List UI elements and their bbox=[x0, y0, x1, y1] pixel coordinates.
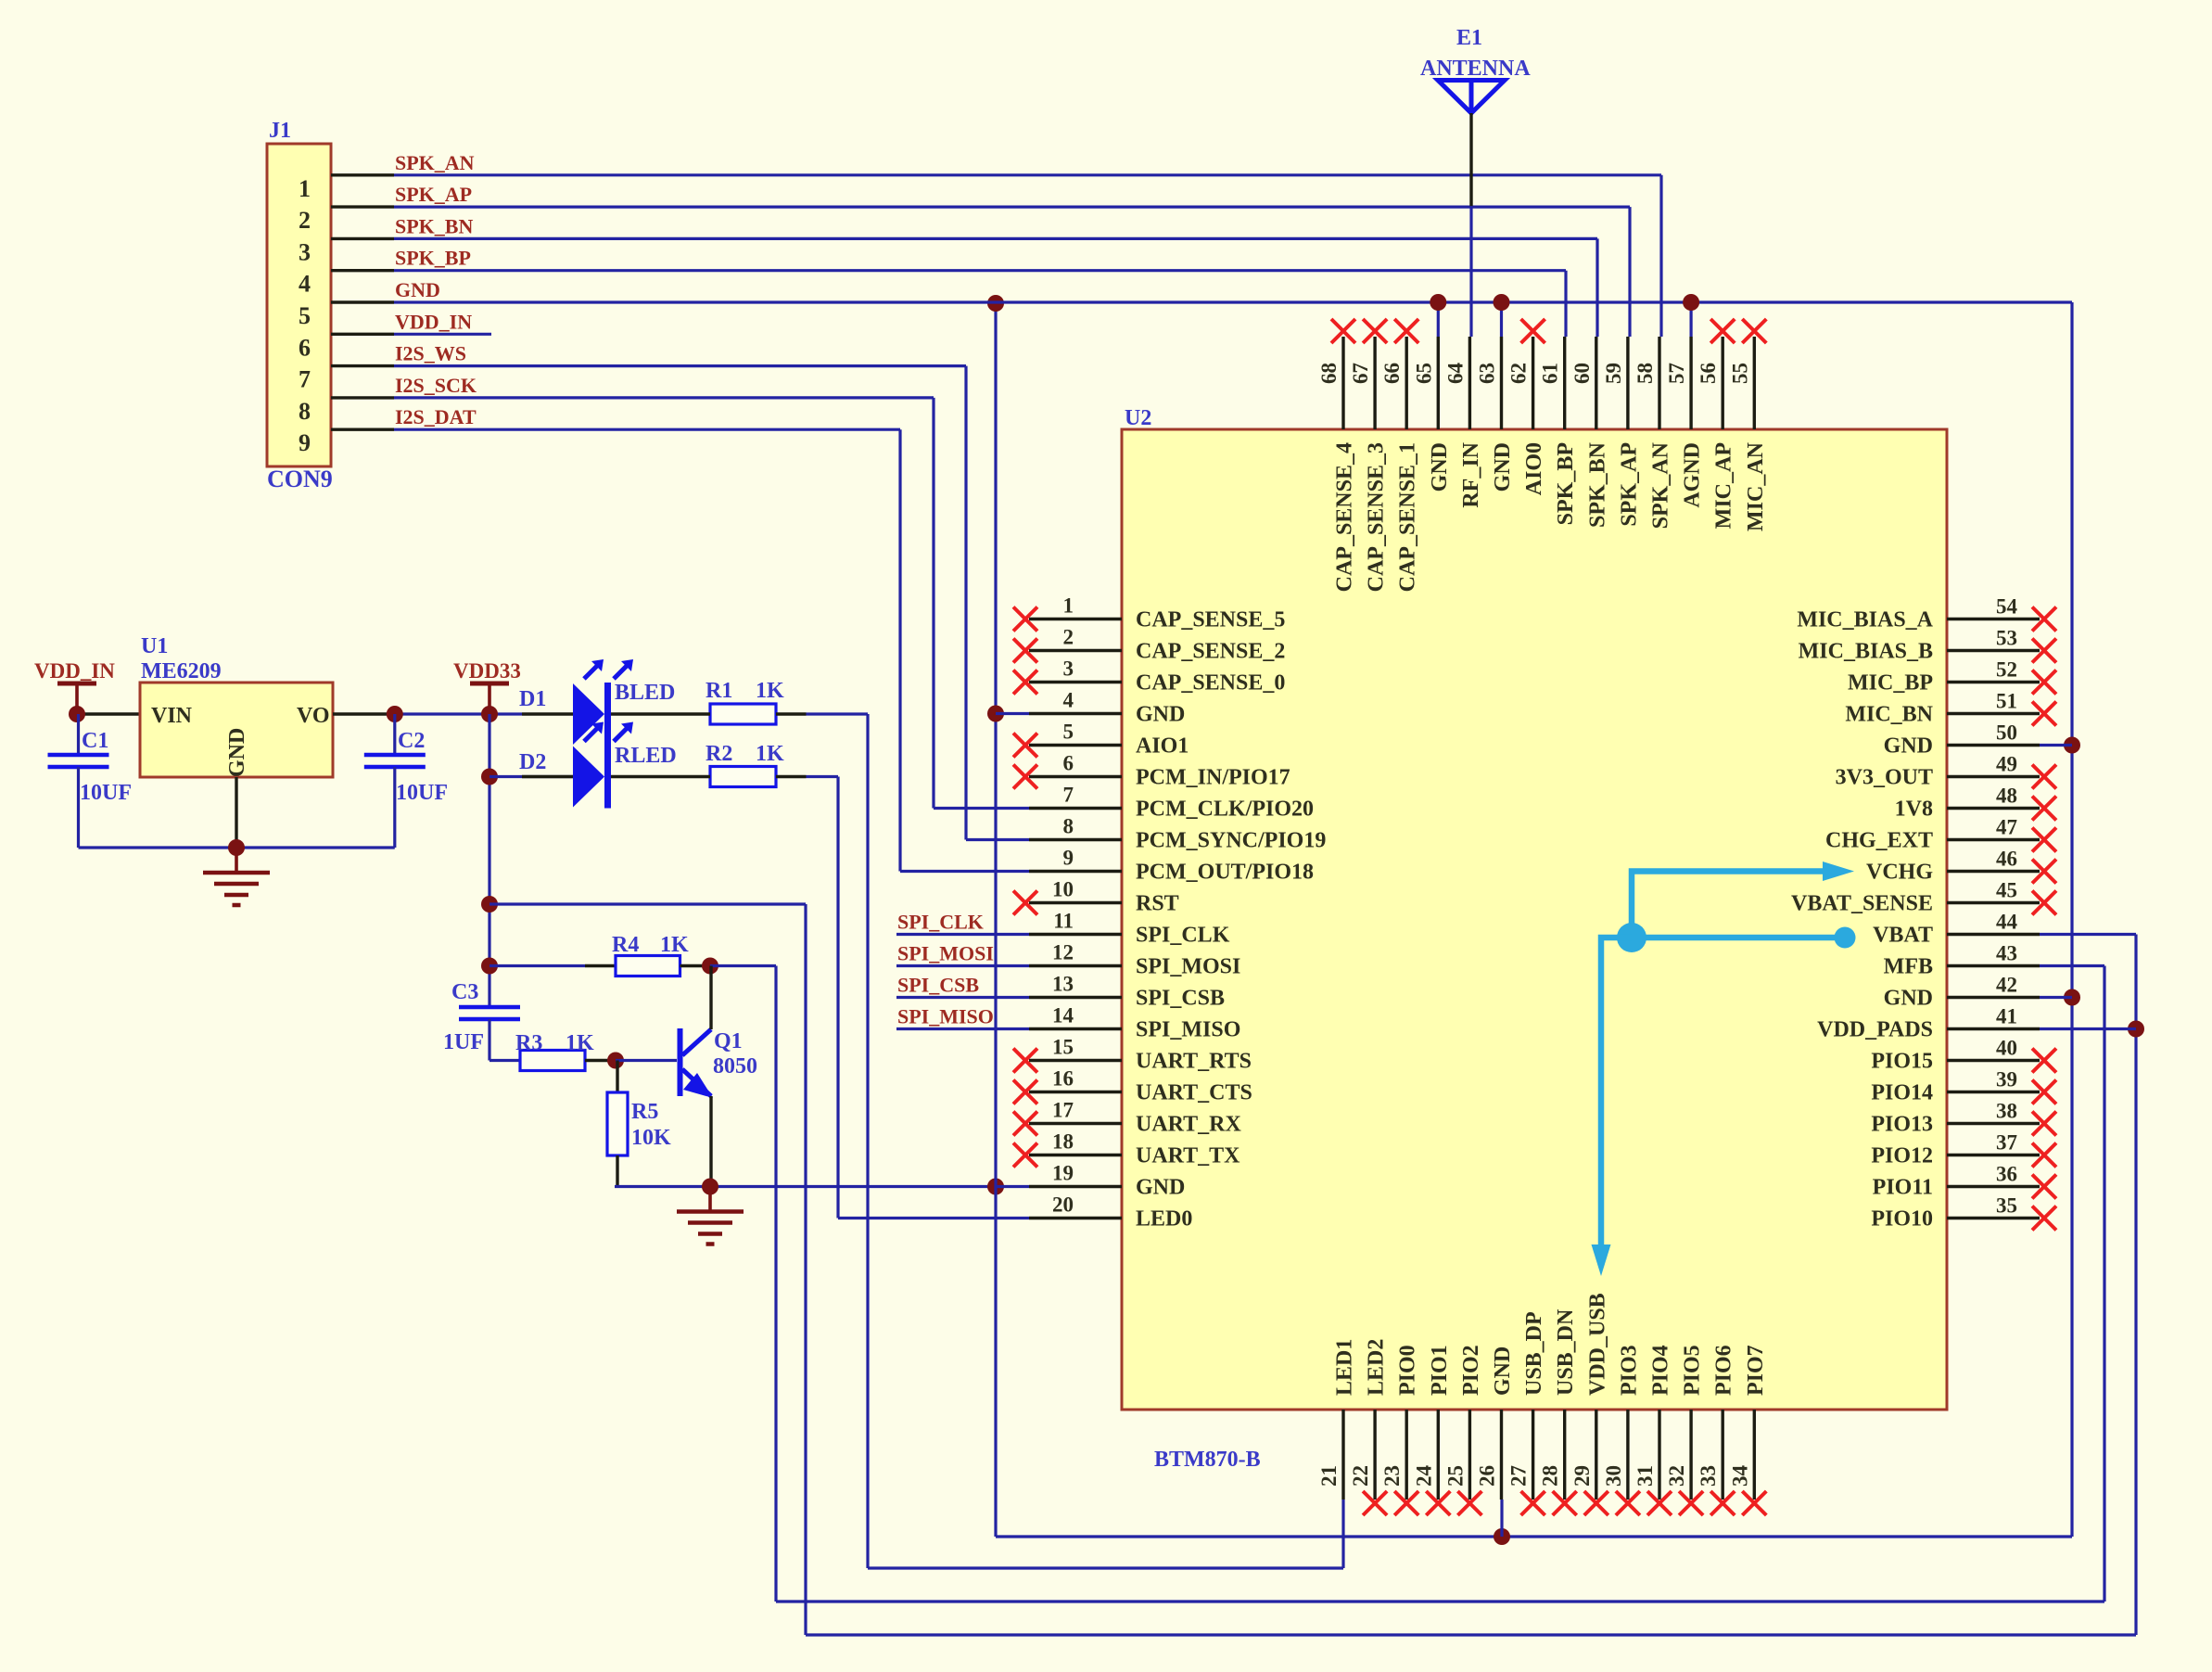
svg-text:54: 54 bbox=[1996, 595, 2018, 619]
wire VDD33 to R4 bbox=[489, 964, 585, 967]
svg-text:BTM870-B: BTM870-B bbox=[1154, 1448, 1261, 1472]
U2 pin 9 (PCM_OUT/PIO18) stub, number and name bbox=[1029, 870, 1122, 873]
U2 pin 23 (PIO0) stub, number and name bbox=[1405, 1410, 1407, 1500]
svg-text:62: 62 bbox=[1507, 363, 1531, 384]
svg-text:1K: 1K bbox=[660, 933, 689, 957]
svg-text:31: 31 bbox=[1634, 1465, 1657, 1487]
U2 pin 58 (SPK_AN) stub, number and name bbox=[1658, 337, 1660, 429]
annotation arrow to VDD_USB bbox=[1601, 938, 1632, 1248]
U2 pin 4 (GND) stub, number and name bbox=[1029, 712, 1122, 715]
transistor Q1 8050 bbox=[678, 1028, 683, 1096]
svg-text:AIO0: AIO0 bbox=[1522, 442, 1546, 495]
svg-text:47: 47 bbox=[1996, 816, 2017, 839]
svg-text:USB_DP: USB_DP bbox=[1522, 1311, 1546, 1396]
svg-text:10: 10 bbox=[1052, 878, 1074, 901]
U2 pin 15 (UART_RTS) stub, number and name bbox=[1029, 1059, 1122, 1062]
wire I2S_WS bbox=[394, 364, 966, 367]
svg-text:PIO7: PIO7 bbox=[1744, 1345, 1768, 1396]
antenna pin wire bbox=[1469, 113, 1472, 207]
U2 pin 12 (SPI_MOSI) stub, number and name bbox=[1029, 964, 1122, 967]
svg-text:MIC_BIAS_B: MIC_BIAS_B bbox=[1799, 640, 1933, 664]
U2 pin 41 (VDD_PADS) stub, number and name bbox=[1947, 1027, 2040, 1030]
svg-text:PIO4: PIO4 bbox=[1649, 1345, 1673, 1396]
node GND bus tap junction bbox=[987, 295, 1004, 312]
wire GND bottom rail bbox=[996, 1535, 2072, 1538]
svg-text:MIC_AN: MIC_AN bbox=[1744, 441, 1768, 531]
svg-text:PCM_IN/PIO17: PCM_IN/PIO17 bbox=[1136, 766, 1290, 790]
Q1 emitter wire bbox=[709, 1096, 712, 1187]
svg-text:BLED: BLED bbox=[615, 681, 675, 705]
svg-text:7: 7 bbox=[299, 366, 311, 393]
svg-text:CAP_SENSE_0: CAP_SENSE_0 bbox=[1136, 671, 1285, 696]
svg-text:PIO5: PIO5 bbox=[1681, 1345, 1705, 1396]
svg-text:23: 23 bbox=[1380, 1465, 1404, 1487]
svg-text:LED0: LED0 bbox=[1136, 1207, 1192, 1232]
U2 pin 56 (MIC_AP) stub, number and name bbox=[1721, 337, 1723, 429]
svg-text:6: 6 bbox=[1063, 752, 1074, 775]
wire SPK_AN bbox=[394, 173, 1661, 176]
svg-text:VDD_USB: VDD_USB bbox=[1585, 1293, 1609, 1396]
node pin19 GND junction bbox=[987, 1179, 1004, 1195]
wire RLED net horizontal to pin20 stub bbox=[838, 1217, 1029, 1219]
node VDD33 to D2 junction bbox=[481, 769, 498, 785]
svg-text:10UF: 10UF bbox=[396, 781, 448, 805]
wire R1 to BLED column bbox=[807, 712, 869, 715]
U2 pin 1 (CAP_SENSE_5) stub, number and name bbox=[1029, 618, 1122, 620]
U2 pin 55 (MIC_AN) stub, number and name bbox=[1753, 337, 1756, 429]
node chip pin4 GND junction bbox=[987, 706, 1004, 722]
U2 pin 10 (RST) stub, number and name bbox=[1029, 901, 1122, 904]
U2 pin 45 (VBAT_SENSE) stub, number and name bbox=[1947, 901, 2040, 904]
svg-text:60: 60 bbox=[1570, 363, 1594, 384]
wire pin42 to GND bbox=[2040, 996, 2072, 999]
svg-text:RF_IN: RF_IN bbox=[1459, 441, 1483, 507]
svg-text:CAP_SENSE_3: CAP_SENSE_3 bbox=[1365, 442, 1389, 592]
wire I2S_SCK bbox=[394, 396, 934, 399]
svg-text:USB_DN: USB_DN bbox=[1554, 1308, 1578, 1396]
svg-text:57: 57 bbox=[1665, 363, 1688, 384]
svg-text:3: 3 bbox=[299, 238, 311, 265]
svg-text:34: 34 bbox=[1728, 1465, 1751, 1487]
svg-text:AIO1: AIO1 bbox=[1136, 734, 1189, 759]
svg-text:25: 25 bbox=[1443, 1465, 1467, 1487]
J1 pin 7 stub and number bbox=[331, 364, 394, 367]
svg-text:CAP_SENSE_1: CAP_SENSE_1 bbox=[1396, 442, 1420, 592]
net label SPI_MOSI bbox=[896, 964, 1029, 967]
U2 pin 11 (SPI_CLK) stub, number and name bbox=[1029, 933, 1122, 936]
U2 pin 2 (CAP_SENSE_2) stub, number and name bbox=[1029, 649, 1122, 652]
wire D2 cathode to R2 bbox=[611, 775, 680, 778]
wire SPK_BP bbox=[394, 269, 1566, 272]
svg-text:GND: GND bbox=[1884, 987, 1933, 1011]
U2 pin 38 (PIO13) stub, number and name bbox=[1947, 1122, 2040, 1125]
svg-text:4: 4 bbox=[1063, 689, 1074, 712]
svg-text:44: 44 bbox=[1996, 911, 2018, 934]
svg-text:10UF: 10UF bbox=[80, 781, 132, 805]
svg-text:43: 43 bbox=[1996, 942, 2017, 965]
svg-text:PIO12: PIO12 bbox=[1871, 1144, 1933, 1168]
svg-text:VCHG: VCHG bbox=[1866, 861, 1933, 885]
U2 pin 17 (UART_RX) stub, number and name bbox=[1029, 1122, 1122, 1125]
wire I2S_DAT bbox=[394, 428, 900, 431]
svg-text:16: 16 bbox=[1052, 1067, 1074, 1091]
wire D1 cathode to R1 bbox=[611, 712, 680, 715]
svg-text:49: 49 bbox=[1996, 753, 2017, 776]
resistor R4 bbox=[585, 964, 616, 967]
node VDD33/R4-column junction y975 bbox=[481, 896, 498, 913]
U2 pin 18 (UART_TX) stub, number and name bbox=[1029, 1154, 1122, 1156]
svg-text:1UF: 1UF bbox=[443, 1030, 484, 1054]
svg-text:R2: R2 bbox=[706, 742, 732, 766]
U2 pin 43 (MFB) stub, number and name bbox=[1947, 964, 2040, 967]
wire VDD33 column to x869 column bbox=[489, 902, 806, 905]
svg-text:I2S_WS: I2S_WS bbox=[395, 342, 466, 365]
svg-text:GND: GND bbox=[1136, 703, 1185, 727]
svg-text:13: 13 bbox=[1052, 973, 1074, 996]
svg-text:GND: GND bbox=[1491, 1347, 1515, 1396]
svg-text:20: 20 bbox=[1052, 1193, 1074, 1217]
J1 pin 8 stub and number bbox=[331, 396, 394, 399]
svg-text:5: 5 bbox=[299, 302, 311, 329]
svg-text:PCM_OUT/PIO18: PCM_OUT/PIO18 bbox=[1136, 861, 1314, 885]
svg-text:1K: 1K bbox=[566, 1031, 594, 1055]
svg-text:CAP_SENSE_4: CAP_SENSE_4 bbox=[1333, 442, 1357, 592]
net label SPI_CLK bbox=[896, 933, 1029, 936]
U2 pin 35 (PIO10) stub, number and name bbox=[1947, 1217, 2040, 1219]
U2 pin 19 (GND) stub, number and name bbox=[1029, 1185, 1122, 1188]
svg-text:PIO15: PIO15 bbox=[1871, 1050, 1933, 1074]
U2 pin 46 (VCHG) stub, number and name bbox=[1947, 870, 2040, 873]
wire antenna to RF_IN bbox=[1469, 206, 1472, 337]
svg-text:D2: D2 bbox=[519, 750, 546, 774]
IC U2 BTM870-B body bbox=[1122, 429, 1947, 1410]
U2 pin 62 (AIO0) stub, number and name bbox=[1532, 337, 1534, 429]
U2 pin 21 (LED1) stub, number and name bbox=[1341, 1410, 1344, 1500]
svg-text:PIO10: PIO10 bbox=[1871, 1207, 1933, 1232]
svg-text:3: 3 bbox=[1063, 657, 1074, 681]
U2 pin 28 (USB_DN) stub, number and name bbox=[1563, 1410, 1566, 1500]
svg-text:40: 40 bbox=[1996, 1037, 2017, 1060]
svg-text:1: 1 bbox=[299, 175, 311, 202]
resistor R1 bbox=[710, 704, 776, 724]
svg-text:42: 42 bbox=[1996, 974, 2017, 997]
U2 pin 24 (PIO1) stub, number and name bbox=[1437, 1410, 1440, 1500]
svg-text:SPI_MOSI: SPI_MOSI bbox=[1136, 955, 1240, 979]
svg-text:37: 37 bbox=[1996, 1131, 2017, 1155]
svg-text:Q1: Q1 bbox=[714, 1029, 743, 1053]
wire VBAT/VDD_PADS vertical right x2304 bbox=[2134, 935, 2137, 1636]
svg-text:17: 17 bbox=[1052, 1099, 1074, 1122]
node pin42 GND junction bbox=[2064, 989, 2080, 1006]
U2 pin 68 (CAP_SENSE_4) stub, number and name bbox=[1341, 337, 1344, 429]
svg-text:PIO3: PIO3 bbox=[1617, 1345, 1641, 1396]
U2 pin 26 (GND) stub, number and name bbox=[1500, 1410, 1503, 1500]
wire VDD33 column down bbox=[488, 714, 490, 1007]
annotation line to VBAT bbox=[1632, 935, 1843, 941]
svg-text:PIO13: PIO13 bbox=[1871, 1113, 1933, 1137]
svg-text:32: 32 bbox=[1665, 1465, 1688, 1487]
svg-text:UART_CTS: UART_CTS bbox=[1136, 1081, 1252, 1105]
node VO/C2 junction bbox=[387, 706, 403, 722]
svg-text:12: 12 bbox=[1052, 941, 1074, 964]
wire R2 to RLED column bbox=[807, 775, 839, 778]
svg-text:67: 67 bbox=[1349, 363, 1372, 384]
U2 pin 13 (SPI_CSB) stub, number and name bbox=[1029, 996, 1122, 999]
wire pin50 to GND bbox=[2040, 744, 2072, 747]
svg-text:55: 55 bbox=[1728, 363, 1751, 384]
svg-text:VIN: VIN bbox=[151, 704, 193, 728]
svg-text:MFB: MFB bbox=[1884, 955, 1933, 979]
U2 pin 3 (CAP_SENSE_0) stub, number and name bbox=[1029, 681, 1122, 683]
svg-text:8050: 8050 bbox=[713, 1054, 757, 1079]
LED D1 bbox=[522, 712, 573, 715]
J1 pin 4 stub and number bbox=[331, 269, 394, 272]
node VDD_IN junction bbox=[69, 706, 85, 722]
svg-text:GND: GND bbox=[1884, 734, 1933, 759]
svg-text:SPK_BP: SPK_BP bbox=[1554, 442, 1578, 525]
wire VDD_PADS net vertical x869 bbox=[804, 904, 807, 1635]
wire pin41 VDD_PADS bbox=[2040, 1027, 2136, 1030]
svg-text:SPK_BP: SPK_BP bbox=[395, 247, 471, 270]
svg-text:SPI_CSB: SPI_CSB bbox=[1136, 987, 1225, 1011]
svg-text:CAP_SENSE_5: CAP_SENSE_5 bbox=[1136, 608, 1285, 632]
net label SPI_MISO bbox=[896, 1027, 1029, 1030]
U2 pin 51 (MIC_BN) stub, number and name bbox=[1947, 712, 2040, 715]
connector J1 (CON9) body bbox=[267, 144, 331, 466]
svg-text:CON9: CON9 bbox=[267, 466, 333, 492]
svg-text:41: 41 bbox=[1996, 1005, 2017, 1028]
U2 pin 33 (PIO6) stub, number and name bbox=[1721, 1410, 1723, 1500]
svg-text:63: 63 bbox=[1476, 363, 1499, 384]
svg-text:LED2: LED2 bbox=[1365, 1339, 1389, 1396]
svg-text:10K: 10K bbox=[631, 1126, 671, 1150]
svg-text:8: 8 bbox=[299, 398, 311, 425]
svg-text:E1: E1 bbox=[1456, 26, 1482, 50]
wire GND bus vertical right x2235 bbox=[2070, 302, 2073, 1537]
wire pin21 vertical bbox=[1341, 1500, 1344, 1568]
node emitter junction bbox=[702, 1179, 718, 1195]
capacitor C2 bbox=[393, 714, 396, 755]
U2 pin 5 (AIO1) stub, number and name bbox=[1029, 744, 1122, 747]
svg-text:PIO2: PIO2 bbox=[1459, 1345, 1483, 1396]
svg-text:VDD_PADS: VDD_PADS bbox=[1817, 1018, 1933, 1042]
U2 pin 47 (CHG_EXT) stub, number and name bbox=[1947, 838, 2040, 841]
J1 pin 9 stub and number bbox=[331, 428, 394, 431]
svg-text:21: 21 bbox=[1317, 1465, 1341, 1487]
U2 pin 48 (1V8) stub, number and name bbox=[1947, 807, 2040, 810]
J1 pin 2 stub and number bbox=[331, 205, 394, 208]
resistor R2 bbox=[710, 767, 776, 787]
svg-text:5: 5 bbox=[1063, 721, 1074, 744]
svg-text:1: 1 bbox=[1063, 594, 1074, 618]
svg-text:50: 50 bbox=[1996, 721, 2017, 745]
U2 pin 20 (LED0) stub, number and name bbox=[1029, 1217, 1122, 1219]
svg-text:D1: D1 bbox=[519, 687, 546, 711]
wire I2S_WS to chip pin8 bbox=[966, 838, 1029, 841]
svg-text:R3: R3 bbox=[515, 1031, 542, 1055]
Q1 collector wire bbox=[709, 966, 712, 1030]
J1 pin 1 stub and number bbox=[331, 173, 394, 176]
U2 pin 53 (MIC_BIAS_B) stub, number and name bbox=[1947, 649, 2040, 652]
svg-text:38: 38 bbox=[1996, 1100, 2017, 1123]
svg-text:27: 27 bbox=[1507, 1465, 1531, 1487]
svg-text:PIO6: PIO6 bbox=[1712, 1345, 1736, 1396]
U2 pin 57 (AGND) stub, number and name bbox=[1689, 337, 1692, 429]
svg-text:I2S_DAT: I2S_DAT bbox=[395, 405, 477, 428]
svg-text:SPK_BN: SPK_BN bbox=[1585, 441, 1609, 528]
svg-text:48: 48 bbox=[1996, 785, 2017, 808]
svg-text:SPK_BN: SPK_BN bbox=[395, 214, 473, 237]
wire I2S_DAT to chip pin9 bbox=[900, 870, 1029, 873]
svg-text:39: 39 bbox=[1996, 1068, 2017, 1091]
ground symbol below Q1 bbox=[708, 1187, 712, 1212]
U2 pin 14 (SPI_MISO) stub, number and name bbox=[1029, 1027, 1122, 1030]
svg-text:ANTENNA: ANTENNA bbox=[1420, 57, 1531, 81]
U2 pin 7 (PCM_CLK/PIO20) stub, number and name bbox=[1029, 807, 1122, 810]
wire ground rail C1-C2 bbox=[79, 846, 395, 849]
svg-text:46: 46 bbox=[1996, 848, 2017, 871]
svg-text:VBAT_SENSE: VBAT_SENSE bbox=[1791, 892, 1933, 916]
svg-text:30: 30 bbox=[1602, 1465, 1625, 1487]
wire base node to Q1 bbox=[616, 1059, 677, 1062]
svg-text:33: 33 bbox=[1697, 1465, 1720, 1487]
U2 pin 36 (PIO11) stub, number and name bbox=[1947, 1185, 2040, 1188]
regulator U1 body bbox=[140, 683, 333, 777]
U2 pin 42 (GND) stub, number and name bbox=[1947, 996, 2040, 999]
svg-text:SPI_MISO: SPI_MISO bbox=[1136, 1018, 1240, 1042]
svg-text:UART_RTS: UART_RTS bbox=[1136, 1050, 1252, 1074]
wire MFB vertical right x2270 bbox=[2103, 966, 2105, 1602]
node VDD33 to R4 junction bbox=[481, 958, 498, 975]
svg-text:6: 6 bbox=[299, 334, 311, 361]
svg-text:PIO11: PIO11 bbox=[1873, 1176, 1933, 1200]
svg-text:68: 68 bbox=[1317, 363, 1341, 384]
svg-text:MIC_BP: MIC_BP bbox=[1848, 671, 1933, 696]
svg-text:PIO14: PIO14 bbox=[1871, 1081, 1933, 1105]
wire C3 to R3 bbox=[489, 1059, 520, 1062]
svg-text:SPK_AN: SPK_AN bbox=[395, 151, 475, 174]
svg-text:15: 15 bbox=[1052, 1036, 1074, 1059]
U2 pin 6 (PCM_IN/PIO17) stub, number and name bbox=[1029, 775, 1122, 778]
svg-text:VDD_IN: VDD_IN bbox=[34, 659, 115, 683]
svg-text:ME6209: ME6209 bbox=[141, 659, 222, 683]
svg-text:22: 22 bbox=[1349, 1465, 1372, 1487]
svg-text:1V8: 1V8 bbox=[1895, 798, 1933, 822]
svg-text:29: 29 bbox=[1570, 1465, 1594, 1487]
wire GND to chip pin19 bbox=[996, 1185, 1029, 1188]
svg-text:56: 56 bbox=[1697, 363, 1720, 384]
svg-text:C2: C2 bbox=[398, 729, 425, 753]
wire GND bus bbox=[394, 300, 2072, 303]
svg-text:SPI_CLK: SPI_CLK bbox=[1136, 924, 1230, 948]
wire emitter ground row bbox=[615, 1185, 996, 1188]
U2 pin 30 (PIO3) stub, number and name bbox=[1626, 1410, 1629, 1500]
annotation arrow to VCHG bbox=[1632, 872, 1828, 938]
svg-text:36: 36 bbox=[1996, 1163, 2017, 1186]
svg-text:19: 19 bbox=[1052, 1162, 1074, 1185]
J1 pin 6 stub and number bbox=[331, 333, 394, 336]
svg-text:C1: C1 bbox=[82, 729, 108, 753]
svg-text:SPI_MOSI: SPI_MOSI bbox=[897, 942, 994, 965]
svg-text:MIC_BIAS_A: MIC_BIAS_A bbox=[1797, 608, 1933, 632]
wire U1 VO to C2 node bbox=[333, 712, 395, 715]
svg-text:PCM_SYNC/PIO19: PCM_SYNC/PIO19 bbox=[1136, 829, 1326, 853]
svg-text:2: 2 bbox=[299, 207, 311, 234]
U2 pin 49 (3V3_OUT) stub, number and name bbox=[1947, 775, 2040, 778]
U2 pin 60 (SPK_BN) stub, number and name bbox=[1595, 337, 1597, 429]
svg-text:UART_TX: UART_TX bbox=[1136, 1144, 1240, 1168]
svg-text:11: 11 bbox=[1053, 910, 1074, 933]
svg-text:RLED: RLED bbox=[615, 744, 677, 768]
svg-text:SPI_MISO: SPI_MISO bbox=[897, 1005, 994, 1028]
svg-text:61: 61 bbox=[1539, 363, 1562, 384]
wire pin44 VBAT bbox=[2040, 933, 2136, 936]
wire BLED net vertical to pin21 rail bbox=[866, 714, 869, 1568]
wire SPK_BN bbox=[394, 237, 1597, 240]
svg-text:LED1: LED1 bbox=[1333, 1339, 1357, 1396]
svg-text:GND: GND bbox=[1136, 1176, 1185, 1200]
U2 pin 54 (MIC_BIAS_A) stub, number and name bbox=[1947, 618, 2040, 620]
svg-text:18: 18 bbox=[1052, 1130, 1074, 1154]
svg-text:PIO0: PIO0 bbox=[1396, 1345, 1420, 1396]
svg-text:GND: GND bbox=[225, 728, 249, 777]
svg-text:9: 9 bbox=[1063, 847, 1074, 870]
svg-text:GND: GND bbox=[395, 278, 440, 301]
annotation junction dot bbox=[1617, 923, 1646, 952]
svg-text:MIC_BN: MIC_BN bbox=[1845, 703, 1933, 727]
svg-text:MIC_AP: MIC_AP bbox=[1712, 442, 1736, 529]
svg-text:4: 4 bbox=[299, 271, 311, 298]
svg-text:26: 26 bbox=[1476, 1465, 1499, 1487]
svg-text:SPI_CLK: SPI_CLK bbox=[897, 911, 984, 934]
U2 pin 61 (SPK_BP) stub, number and name bbox=[1563, 337, 1566, 429]
U2 pin 29 (VDD_USB) stub, number and name bbox=[1595, 1410, 1597, 1500]
svg-text:GND: GND bbox=[1428, 442, 1452, 491]
svg-text:8: 8 bbox=[1063, 815, 1074, 838]
svg-text:66: 66 bbox=[1380, 363, 1404, 384]
U2 pin 39 (PIO14) stub, number and name bbox=[1947, 1091, 2040, 1093]
svg-text:64: 64 bbox=[1443, 363, 1467, 385]
U2 pin 27 (USB_DP) stub, number and name bbox=[1532, 1410, 1534, 1500]
node VDD33 junction bbox=[481, 706, 498, 722]
svg-text:CHG_EXT: CHG_EXT bbox=[1825, 829, 1933, 853]
svg-text:VDD_IN: VDD_IN bbox=[395, 310, 472, 333]
wire SPK_AP bbox=[394, 206, 1630, 209]
U2 pin 25 (PIO2) stub, number and name bbox=[1468, 1410, 1471, 1500]
U2 pin 37 (PIO12) stub, number and name bbox=[1947, 1154, 2040, 1156]
capacitor C1 bbox=[77, 714, 80, 755]
svg-text:7: 7 bbox=[1063, 784, 1074, 807]
wire VDD_IN net stub bbox=[394, 333, 491, 336]
wire VDD_IN to U1 VIN bbox=[77, 712, 140, 715]
wire VDD_PADS rail bbox=[806, 1633, 2136, 1636]
wire I2S_SCK to chip pin7 bbox=[934, 807, 1029, 810]
U2 pin 22 (LED2) stub, number and name bbox=[1373, 1410, 1376, 1500]
U2 pin 8 (PCM_SYNC/PIO19) stub, number and name bbox=[1029, 838, 1122, 841]
J1 pin 5 stub and number bbox=[331, 300, 394, 303]
node VDD_PADS junction bbox=[2128, 1021, 2144, 1038]
svg-text:35: 35 bbox=[1996, 1194, 2017, 1218]
svg-text:1K: 1K bbox=[756, 742, 784, 766]
svg-text:UART_RX: UART_RX bbox=[1136, 1113, 1241, 1137]
svg-text:R4: R4 bbox=[612, 933, 639, 957]
node pin50 GND junction bbox=[2064, 737, 2080, 754]
wire pin43 MFB bbox=[2040, 964, 2104, 967]
svg-text:C3: C3 bbox=[451, 980, 478, 1004]
svg-text:GND: GND bbox=[1491, 442, 1515, 491]
U2 pin 40 (PIO15) stub, number and name bbox=[1947, 1059, 2040, 1062]
svg-text:SPI_CSB: SPI_CSB bbox=[897, 974, 979, 997]
